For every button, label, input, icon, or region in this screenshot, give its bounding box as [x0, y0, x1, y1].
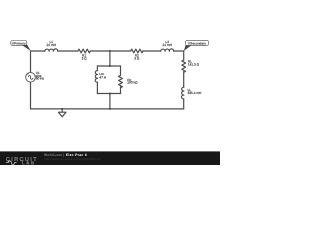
svg-text:21 mH: 21 mH	[163, 43, 173, 47]
node VSecondary callout box	[185, 40, 208, 45]
wire Rc branch top lead	[120, 66, 122, 75]
node VPrimary callout box	[11, 41, 27, 46]
node junction dot bottom rail middle	[109, 108, 111, 110]
inductor L1	[45, 49, 58, 51]
inductor L2	[161, 49, 174, 51]
wire Lm branch bottom lead	[96, 82, 98, 93]
wire parallel box top connector	[97, 65, 120, 67]
svg-text:60 Hz: 60 Hz	[36, 77, 45, 81]
wire RL to LL	[183, 72, 185, 88]
inductor Lm	[95, 71, 97, 83]
wire left rail upper	[30, 51, 32, 73]
svg-text:3 Ω: 3 Ω	[82, 57, 88, 61]
svg-text:VSecondary: VSecondary	[188, 42, 206, 46]
wire left rail lower	[30, 82, 32, 109]
wire bottom rail	[31, 108, 184, 110]
wire LL to bottom rail	[183, 99, 185, 109]
svg-text:VPrimary: VPrimary	[12, 42, 26, 46]
node junction dot box bottom	[109, 93, 111, 95]
svg-text:47 H: 47 H	[99, 75, 106, 79]
resistor RL	[182, 60, 186, 72]
footer credit text	[44, 153, 101, 161]
svg-text:100 kΩ: 100 kΩ	[127, 81, 138, 85]
svg-text:3 Ω: 3 Ω	[134, 57, 140, 61]
svg-text:141.3 Ω: 141.3 Ω	[188, 62, 200, 66]
inductor LL	[181, 87, 183, 99]
node junction dot top middle	[109, 50, 111, 52]
node VPrimary callout pointer	[22, 45, 31, 51]
wire R1 to R2	[90, 50, 131, 52]
footer CircuitLab logo	[6, 157, 38, 166]
svg-text:21 mH: 21 mH	[47, 43, 57, 47]
wire right rail top	[183, 51, 185, 60]
wire top-left horizontal	[31, 50, 45, 52]
wire R2 to L2	[143, 50, 161, 52]
footer watermark bar	[0, 151, 220, 165]
wire parallel box bottom connector	[97, 93, 120, 95]
svg-text:LAB: LAB	[22, 161, 36, 165]
node junction dot box top	[109, 65, 111, 67]
wire L1 to R1	[58, 50, 78, 52]
svg-text:http://www.circuitlab.com/c2qy: http://www.circuitlab.com/c2qy54t37ee8	[44, 157, 101, 161]
ground symbol	[58, 109, 66, 117]
resistor R1	[78, 49, 90, 53]
resistor R2	[131, 49, 143, 53]
resistor Rc	[119, 75, 123, 87]
voltage source V1	[26, 73, 36, 83]
svg-text:335.4 mH: 335.4 mH	[188, 91, 203, 95]
node junction dot ground	[61, 108, 63, 110]
node VSecondary callout pointer	[184, 45, 192, 51]
wire middle branch bottom stem	[109, 94, 111, 109]
wire Rc branch bottom lead	[120, 87, 122, 94]
wire Lm branch top lead	[96, 66, 98, 71]
wire L2 to right rail	[174, 50, 184, 52]
wire middle branch stem	[109, 51, 111, 66]
